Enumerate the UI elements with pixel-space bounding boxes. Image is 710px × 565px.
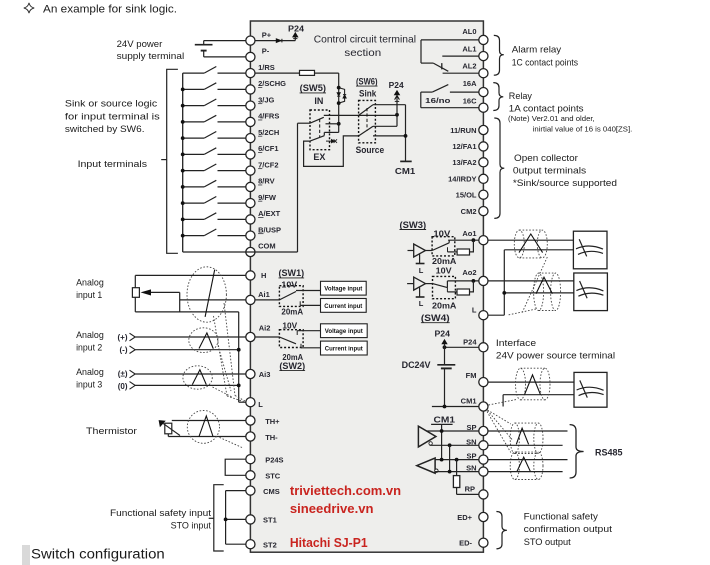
terminal AL0 — [462, 27, 488, 45]
terminal 3/JG — [246, 95, 275, 110]
svg-text:CM1: CM1 — [434, 415, 456, 425]
box Current input 1 — [321, 299, 367, 313]
svg-text:ST1: ST1 — [263, 516, 277, 525]
bullet star — [24, 3, 34, 13]
svg-text:(SW5): (SW5) — [300, 83, 326, 93]
wire L to returns — [488, 314, 504, 316]
switch SW3 box — [432, 237, 455, 256]
resistor RP — [453, 460, 478, 495]
resistor Ao1 — [448, 240, 474, 255]
wire SP1 — [427, 429, 479, 433]
ground L (Ao1) — [416, 254, 425, 275]
wire SN2 out — [488, 471, 563, 473]
svg-text:(SW2): (SW2) — [279, 361, 305, 371]
switch SW3 arm — [432, 240, 449, 250]
svg-text:24V power: 24V power — [117, 39, 163, 50]
svg-text:10V: 10V — [433, 229, 451, 238]
terminal 9/FW — [246, 193, 277, 208]
svg-text:16/no: 16/no — [425, 96, 451, 105]
terminal 4/FRS — [246, 112, 280, 127]
svg-text:Analog: Analog — [76, 277, 104, 288]
input terminals bracket — [161, 69, 178, 253]
brace open collector — [494, 118, 504, 218]
resistor Ao2 — [447, 281, 473, 295]
caption: An example for sink logic. — [43, 3, 177, 15]
svg-text:5/2CH: 5/2CH — [258, 128, 279, 137]
shield drops to L — [508, 257, 547, 315]
svg-text:14/IRDY: 14/IRDY — [448, 175, 476, 184]
terminal 5/2CH — [246, 128, 280, 143]
terminal L — [472, 306, 488, 320]
svg-text:16A: 16A — [463, 79, 477, 88]
label Interface — [496, 338, 615, 362]
wire SP1 out — [488, 430, 568, 432]
terminal SP — [466, 423, 488, 436]
wire SW1 voltage — [296, 290, 321, 292]
driver TX — [418, 426, 436, 447]
label 20mA (SW2) — [282, 353, 303, 362]
wire SP2 — [435, 458, 479, 462]
svg-text:4/FRS: 4/FRS — [258, 112, 279, 121]
switch SW5 upper — [298, 117, 324, 123]
brace ED — [496, 512, 507, 549]
terminal TH+ — [246, 416, 280, 426]
svg-text:FM: FM — [466, 371, 477, 380]
terminal P- — [246, 47, 270, 62]
wire SW1 current — [300, 301, 320, 305]
svg-text:P24: P24 — [288, 24, 305, 33]
bracket STO input — [209, 485, 224, 551]
potentiometer — [132, 288, 179, 312]
svg-text:confirmation output: confirmation output — [524, 524, 613, 535]
wire sink contact to CM1 rail — [373, 105, 406, 162]
label RS485 — [595, 448, 623, 459]
terminal SP — [466, 452, 488, 465]
terminal FM — [466, 371, 488, 387]
wire SP2 out — [488, 459, 568, 461]
svg-text:L: L — [472, 306, 477, 315]
shield SP/SN cable 1 — [510, 423, 543, 453]
label (SW1) — [279, 268, 305, 278]
wire meter3 return — [503, 395, 574, 407]
terminal CM2 — [461, 207, 488, 216]
wire to SW5 lower contact — [324, 132, 338, 135]
svg-text:15/OL: 15/OL — [456, 191, 477, 200]
box Voltage input 1 — [321, 281, 367, 295]
svg-text:A/EXT: A/EXT — [258, 209, 281, 218]
terminal COM — [246, 242, 276, 257]
terminal H — [246, 271, 267, 280]
svg-text:Ao2: Ao2 — [462, 268, 476, 277]
svg-text:CM1: CM1 — [461, 396, 477, 405]
switch A/EXT — [181, 213, 246, 222]
terminal 6/CF1 — [246, 144, 279, 159]
wire Ao1 to meter — [488, 239, 573, 241]
svg-text:STO output: STO output — [524, 537, 571, 548]
terminal ST1 — [246, 515, 277, 525]
heading Switch configuration — [31, 546, 165, 561]
svg-text:CMS: CMS — [263, 487, 280, 496]
switch 5/2CH — [181, 132, 246, 141]
switch 8/RV — [181, 180, 246, 189]
wire source contact — [373, 113, 399, 126]
svg-text:Ao1: Ao1 — [462, 229, 476, 238]
switch SW1 box — [279, 286, 303, 307]
jumper P24S-STC — [225, 459, 246, 475]
shield Ao2 cable — [534, 273, 561, 310]
svg-text:Ai2: Ai2 — [259, 324, 271, 333]
svg-text:Analog: Analog — [76, 367, 104, 378]
wire 16A — [450, 91, 479, 93]
terminal P+ — [246, 30, 272, 45]
svg-text:Control circuit terminal: Control circuit terminal — [314, 35, 416, 46]
wire SN1 — [430, 443, 479, 447]
label (±) — [118, 370, 128, 379]
svg-text:Analog: Analog — [76, 330, 104, 341]
wire Ao2 to meter — [488, 280, 574, 282]
svg-text:DC24V: DC24V — [402, 360, 431, 370]
label (0) — [118, 382, 128, 391]
svg-text:3/JG: 3/JG — [258, 95, 274, 104]
svg-text:(-): (-) — [120, 345, 128, 354]
P24 arrow (SW6) — [395, 91, 400, 115]
label (+) — [118, 333, 128, 342]
wire analog2 minus — [130, 346, 241, 354]
terminal AL1 — [462, 45, 488, 61]
svg-text:P-: P- — [262, 47, 270, 56]
shield analog3 — [183, 366, 212, 389]
svg-text:P24: P24 — [435, 330, 451, 339]
svg-text:(0): (0) — [118, 382, 128, 391]
jumper CMS-ST1-ST2 — [224, 491, 246, 545]
svg-text:L: L — [419, 266, 424, 275]
terminal ST2 — [246, 540, 277, 550]
label STO output — [524, 511, 613, 548]
switch 7/CF2 — [181, 164, 246, 173]
label 20mA (SW3) — [432, 257, 457, 266]
svg-text:(SW3): (SW3) — [400, 220, 427, 230]
section marker box — [22, 545, 30, 565]
P24 arrow (right) — [442, 340, 447, 347]
terminal 14/IRDY — [448, 174, 488, 183]
wire SN1 out — [488, 444, 563, 446]
terminal TH- — [246, 432, 278, 442]
switch 1/RS — [183, 67, 246, 74]
meter Ao1 — [573, 231, 607, 269]
terminal STC — [246, 471, 281, 481]
svg-text:H: H — [261, 271, 266, 280]
svg-text:0utput terminals: 0utput terminals — [513, 165, 587, 176]
label CM1 (rail) — [431, 415, 455, 425]
svg-text:sineedrive.vn: sineedrive.vn — [290, 501, 374, 516]
terminal 1/RS — [246, 63, 275, 78]
brace RS485 — [570, 425, 584, 478]
svg-text:Current input: Current input — [324, 304, 362, 310]
switch B/USP — [181, 229, 246, 238]
svg-text:CM2: CM2 — [461, 207, 477, 216]
svg-text:ED+: ED+ — [457, 513, 472, 522]
24V supply label — [117, 39, 185, 62]
marker EX open contact — [326, 139, 337, 143]
resistor on 1/RS — [255, 70, 339, 75]
terminal Ao2 — [462, 268, 488, 286]
svg-text:Alarm relay: Alarm relay — [512, 44, 562, 55]
label sink/source logic — [65, 99, 160, 135]
switch SW5 link — [319, 119, 321, 137]
svg-text:Sink: Sink — [359, 88, 377, 98]
svg-text:STO input: STO input — [171, 521, 212, 532]
shield rays from CM1 — [487, 400, 516, 453]
label IN — [314, 96, 323, 106]
svg-text:An example for sink logic.: An example for sink logic. — [43, 3, 177, 15]
diode pair — [337, 86, 346, 105]
wire SW5-SW6 sink line — [324, 114, 397, 116]
svg-text:11/RUN: 11/RUN — [450, 126, 476, 135]
brace relay 16 — [493, 83, 503, 111]
svg-text:P24S: P24S — [265, 455, 283, 464]
svg-text:Sink or source logic: Sink or source logic — [65, 99, 158, 110]
svg-text:supply terminal: supply terminal — [117, 51, 185, 62]
switch SW2 box — [279, 330, 303, 348]
svg-text:20mA: 20mA — [432, 302, 457, 311]
meter FM — [574, 372, 607, 407]
wire Ao2 — [447, 279, 478, 288]
wire H loop — [135, 275, 246, 312]
label (SW6) — [356, 76, 378, 86]
svg-text:B/USP: B/USP — [258, 225, 281, 234]
switch SW6 sink arm — [359, 105, 373, 116]
terminal 2/SCHG — [246, 79, 286, 94]
wire AL0 — [421, 40, 479, 63]
label Analog input 1 — [76, 277, 104, 301]
svg-text:input 2: input 2 — [76, 343, 102, 354]
wire amp to SW3 — [426, 250, 433, 252]
label STO input — [110, 508, 211, 532]
svg-text:Functional safety: Functional safety — [524, 511, 598, 522]
svg-text:P+: P+ — [262, 30, 272, 39]
svg-text:*Sink/source supported: *Sink/source supported — [513, 178, 617, 189]
label P24 (SW6) — [389, 81, 405, 90]
label DC24V — [402, 360, 431, 370]
switch SW1 arm — [279, 292, 296, 300]
label Analog input 2 — [76, 330, 104, 354]
label Thermistor — [86, 426, 137, 437]
terminal 7/CF2 — [246, 160, 279, 175]
label (SW3) — [400, 220, 427, 230]
terminal 16C — [463, 97, 488, 113]
svg-text:P24: P24 — [463, 337, 477, 346]
thermistor — [159, 421, 246, 437]
switch SW5 box — [310, 110, 330, 150]
svg-text:CM1: CM1 — [395, 166, 416, 176]
label P24 (right) — [435, 330, 451, 339]
relay contact AL — [421, 63, 448, 71]
switch SW6 box — [359, 100, 376, 142]
op-amp Ao1 — [408, 244, 426, 257]
svg-text:(SW1): (SW1) — [279, 268, 305, 278]
svg-text:IN: IN — [314, 96, 323, 106]
wire SW2 current — [301, 344, 321, 348]
node source line — [373, 134, 407, 138]
wire CM1 internal — [432, 405, 479, 409]
label Input terminals — [78, 159, 148, 170]
shield analog1 — [187, 267, 226, 322]
svg-text:input 3: input 3 — [76, 380, 102, 391]
label 16/no — [425, 96, 451, 105]
svg-text:(Note) Ver2.01 and older,: (Note) Ver2.01 and older, — [508, 114, 595, 123]
svg-text:ST2: ST2 — [263, 540, 277, 549]
switch 4/FRS — [181, 115, 246, 124]
svg-text:(SW6): (SW6) — [356, 76, 378, 86]
shield FM cable — [516, 368, 551, 400]
terminal CMS — [246, 486, 280, 496]
label (SW4) — [421, 313, 450, 323]
svg-text:input 1: input 1 — [76, 290, 102, 301]
label 10V (SW3) — [433, 229, 451, 238]
label 20mA (SW4) — [432, 302, 457, 311]
wire 16C — [421, 92, 479, 108]
svg-text:6/CF1: 6/CF1 — [258, 144, 278, 153]
battery DC24V — [437, 347, 455, 406]
terminal P24 — [463, 337, 488, 352]
terminal RP — [465, 484, 488, 499]
terminal A/EXT — [246, 209, 281, 224]
wire main vertical — [338, 73, 340, 132]
terminal SN — [466, 464, 488, 477]
op-amp Ao2 — [407, 277, 425, 290]
shield thermistor — [187, 411, 242, 448]
wire analog2 plus — [130, 333, 246, 341]
switch SW4 arm — [433, 284, 448, 288]
switch SW6 source arm — [359, 126, 373, 136]
shield drains to L — [213, 303, 246, 402]
svg-text:COM: COM — [258, 242, 276, 251]
wire AL2 — [443, 72, 479, 74]
label alarm relay — [512, 44, 578, 68]
svg-text:Hitachi SJ-P1: Hitachi SJ-P1 — [290, 535, 368, 550]
wire COM — [183, 251, 246, 253]
wire COM riser — [246, 123, 298, 252]
brace alarm relay — [494, 35, 504, 75]
terminal 8/RV — [246, 177, 275, 192]
svg-text:L: L — [258, 400, 263, 409]
svg-text:Ai3: Ai3 — [259, 370, 271, 379]
wire EX loop — [304, 136, 359, 167]
terminal 16A — [463, 79, 488, 97]
input switch bus — [182, 73, 184, 252]
svg-text:Interface: Interface — [496, 338, 536, 349]
meter Ao2 — [574, 273, 608, 311]
terminal B/USP — [246, 225, 281, 240]
switch SW5 lower — [310, 136, 324, 141]
svg-text:ED-: ED- — [459, 539, 472, 548]
svg-text:9/FW: 9/FW — [258, 193, 277, 202]
terminal Ai1 — [246, 290, 270, 305]
terminal L — [246, 398, 263, 409]
svg-text:for input terminal is: for input terminal is — [65, 111, 160, 122]
svg-text:10V: 10V — [436, 266, 453, 275]
svg-text:P24: P24 — [389, 81, 405, 90]
wire meter2 return — [502, 291, 573, 295]
svg-text:2/SCHG: 2/SCHG — [258, 79, 286, 88]
svg-text:Source: Source — [356, 145, 385, 155]
wire AL1 — [442, 55, 479, 57]
svg-text:switched by SW6.: switched by SW6. — [65, 124, 145, 135]
node SW5 junction — [326, 122, 341, 126]
wire Ai1 pole — [255, 299, 279, 301]
rail SN — [449, 445, 451, 471]
svg-text:Input terminals: Input terminals — [78, 159, 148, 170]
switch 2/SCHG — [181, 83, 246, 92]
svg-text:Switch configuration: Switch configuration — [31, 546, 165, 561]
wire P24 right — [443, 345, 479, 349]
svg-text:1A contact points: 1A contact points — [509, 103, 584, 114]
svg-text:7/CF2: 7/CF2 — [258, 160, 278, 169]
switch SW4 box — [433, 276, 456, 298]
terminal 15/OL — [456, 190, 488, 199]
wire Ai2 pole — [255, 336, 279, 338]
wire FM to meter — [488, 381, 574, 383]
svg-text:inirtial value of 16 is 040[ZS: inirtial value of 16 is 040[ZS]. — [533, 125, 633, 134]
svg-text:12/FA1: 12/FA1 — [452, 142, 476, 151]
svg-text:EX: EX — [313, 152, 325, 162]
svg-text:20mA: 20mA — [281, 308, 303, 317]
switch 3/JG — [181, 99, 246, 108]
shield SP/SN cable 2 — [510, 452, 543, 479]
label 10V (SW1) — [281, 280, 298, 289]
wire analog3 plus — [130, 370, 246, 378]
svg-text:RS485: RS485 — [595, 448, 623, 459]
driver RX — [417, 458, 438, 473]
label 10V (SW2) — [282, 321, 297, 330]
box Current input 2 — [321, 341, 368, 355]
svg-text:24V power source terminal: 24V power source terminal — [496, 350, 615, 361]
label P24 top — [288, 24, 305, 33]
terminal 11/RUN — [450, 125, 488, 134]
wire SN2 — [435, 470, 479, 474]
svg-text:(±): (±) — [118, 370, 128, 379]
label 10V (SW4) — [436, 266, 453, 275]
watermark Hitachi SJ-P1 — [290, 535, 368, 550]
terminal Ao1 — [462, 229, 488, 245]
shield Ao1 cable — [514, 230, 547, 258]
svg-text:Open collector: Open collector — [514, 153, 578, 164]
svg-text:AL2: AL2 — [462, 61, 476, 70]
svg-text:Voltage input: Voltage input — [324, 287, 362, 293]
svg-text:L: L — [419, 299, 424, 308]
svg-text:20mA: 20mA — [432, 257, 457, 266]
watermark triviettech — [290, 483, 401, 498]
wire Ao1 — [448, 238, 479, 242]
relay contact 16 — [421, 85, 449, 93]
svg-text:AL0: AL0 — [462, 27, 476, 36]
svg-text:STC: STC — [265, 472, 281, 481]
svg-text:Voltage input: Voltage input — [325, 329, 363, 335]
svg-text:Current input: Current input — [325, 347, 363, 353]
switch 9/FW — [181, 197, 246, 206]
svg-text:(SW4): (SW4) — [421, 313, 450, 323]
switch SW6 link — [366, 108, 368, 131]
svg-text:TH+: TH+ — [265, 417, 280, 426]
svg-text:8/RV: 8/RV — [258, 177, 275, 186]
switch 6/CF1 — [181, 148, 246, 157]
svg-text:RP: RP — [465, 484, 475, 493]
svg-text:16C: 16C — [463, 97, 477, 106]
svg-text:TH-: TH- — [265, 433, 278, 442]
svg-text:AL1: AL1 — [462, 45, 476, 54]
watermark sineedrive — [290, 501, 374, 516]
svg-text:Thermistor: Thermistor — [86, 426, 137, 437]
